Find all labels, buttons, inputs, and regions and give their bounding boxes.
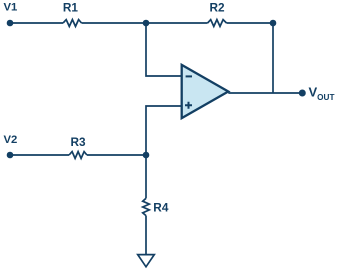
wire R4 to ground bbox=[145, 216, 147, 255]
svg-text:R4: R4 bbox=[153, 200, 169, 214]
wire right corner down to output line bbox=[272, 23, 274, 93]
wire node B up to non-inverting input bbox=[146, 106, 182, 155]
node A junction bbox=[143, 20, 150, 27]
svg-text:R1: R1 bbox=[63, 1, 79, 15]
wire V1 to R1 bbox=[10, 22, 63, 24]
node B junction bbox=[143, 152, 150, 159]
op-amp U1 bbox=[182, 65, 229, 118]
resistor R3 bbox=[69, 152, 87, 159]
svg-text:R2: R2 bbox=[209, 0, 225, 14]
wire R3 to node B bbox=[87, 154, 146, 156]
wire R1 to R2 through node A bbox=[82, 22, 208, 24]
wire R2 to right corner bbox=[227, 22, 274, 24]
ground bbox=[138, 255, 155, 267]
node VOUT terminal bbox=[299, 90, 306, 97]
node V1 terminal bbox=[7, 20, 14, 27]
svg-text:VOUT: VOUT bbox=[309, 85, 335, 103]
wire node A down to inverting input bbox=[146, 23, 182, 76]
resistor R1 bbox=[63, 20, 81, 27]
resistor R4 bbox=[143, 198, 150, 215]
node C corner junction bbox=[270, 20, 277, 27]
wire V2 to R3 bbox=[10, 154, 69, 156]
wire op-amp output to VOUT node bbox=[228, 92, 302, 94]
wire node B down to R4 bbox=[145, 155, 147, 198]
node V2 terminal bbox=[7, 152, 14, 159]
resistor R2 bbox=[208, 20, 227, 27]
svg-text:V2: V2 bbox=[4, 134, 18, 146]
svg-text:V1: V1 bbox=[4, 2, 18, 14]
svg-text:R3: R3 bbox=[70, 135, 86, 149]
